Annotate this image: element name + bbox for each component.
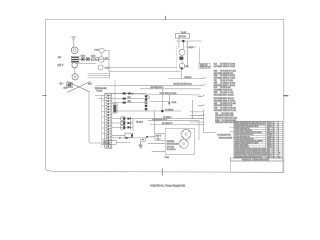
svg-text:BLK-YEL PRI WDG 1-2-3: BLK-YEL PRI WDG 1-2-3 — [174, 84, 192, 86]
svg-text:CP70: CP70 — [267, 122, 271, 124]
tick bottom center — [161, 169, 163, 176]
fuse holder F3 — [99, 48, 104, 53]
svg-text:TO FIL OF V-401: TO FIL OF V-401 — [220, 80, 233, 82]
svg-text:1: 1 — [278, 144, 279, 146]
svg-text:PLATE AND FIL: PLATE AND FIL — [217, 133, 231, 136]
tube socket V3 — [179, 139, 188, 148]
svg-text:TO PLUG P-401: TO PLUG P-401 — [220, 105, 232, 107]
svg-text:TO TERM 6 TB-401: TO TERM 6 TB-401 — [220, 82, 235, 84]
svg-text:RW25: RW25 — [267, 134, 271, 136]
wire harness L4 — [115, 110, 181, 112]
svg-text:TO TERM 2 TB-401: TO TERM 2 TB-401 — [220, 66, 235, 68]
rectifier CR1 — [112, 117, 204, 120]
capacitor C1 — [67, 82, 72, 87]
tick left center — [43, 95, 47, 97]
switch S1 bezel — [72, 62, 77, 67]
svg-text:X1: X1 — [273, 132, 275, 134]
wire — [109, 72, 111, 78]
wire — [146, 136, 155, 138]
svg-text:TO PLATE OF V-401: TO PLATE OF V-401 — [220, 69, 236, 72]
wire — [148, 143, 165, 145]
svg-text:TO RECT CR-402: TO RECT CR-402 — [220, 98, 234, 100]
switch S-402 — [98, 65, 109, 70]
wire — [98, 98, 105, 100]
svg-text:R-402 RES 100K 1W: R-402 RES 100K 1W — [235, 136, 251, 138]
module pin stubs — [190, 100, 216, 132]
label fil wind — [160, 93, 177, 95]
svg-text:TO TERM 1 TB-401: TO TERM 1 TB-401 — [220, 64, 235, 66]
svg-text:X1: X1 — [273, 142, 275, 144]
terminal screws TB1 — [107, 95, 109, 147]
tick right center — [284, 95, 288, 97]
label F-401 — [81, 55, 85, 57]
svg-text:2.5 V: 2.5 V — [144, 101, 146, 105]
svg-text:NE51: NE51 — [267, 132, 271, 134]
terminal lug E1 — [146, 96, 149, 99]
svg-text:2: 2 — [278, 126, 279, 128]
svg-text:RED: RED — [214, 70, 218, 72]
svg-text:F-402: F-402 — [95, 49, 99, 51]
svg-text:BLU: BLU — [214, 87, 218, 89]
terminal board TB1 — [105, 93, 112, 148]
terminal strip hatching — [105, 95, 111, 148]
wire bus AC2 — [109, 71, 180, 73]
input label box — [155, 134, 165, 141]
svg-text:TP40: TP40 — [267, 140, 271, 142]
svg-text:X1: X1 — [273, 128, 275, 130]
wire stub hook 5 — [198, 114, 204, 115]
svg-text:6.3V: 6.3V — [88, 84, 92, 86]
label to term — [165, 109, 174, 111]
title block box — [231, 161, 283, 172]
svg-text:1: 1 — [278, 140, 279, 142]
wire — [161, 89, 163, 111]
svg-text:FIL WIND 5 V: FIL WIND 5 V — [162, 123, 173, 125]
svg-text:3-62-178-4-1 : Power Supply Un: 3-62-178-4-1 : Power Supply Unit — [150, 184, 185, 187]
svg-text:2: 2 — [278, 128, 279, 130]
svg-text:1: 1 — [278, 132, 279, 134]
svg-text:TO FUSE F-402: TO FUSE F-402 — [220, 90, 232, 92]
wire list — [214, 64, 237, 125]
svg-text:X1: X1 — [273, 122, 275, 124]
wire bus AC1 — [109, 67, 177, 69]
wire bus B4 — [105, 93, 201, 95]
wire — [199, 48, 201, 64]
wire trio left b — [88, 75, 110, 77]
svg-text:TB-401: TB-401 — [96, 91, 102, 93]
connector J-401 column — [145, 95, 148, 110]
wire — [182, 42, 184, 48]
rectifier CR2 — [112, 121, 133, 124]
svg-text:TO TERM 5 TB-401: TO TERM 5 TB-401 — [220, 78, 235, 80]
svg-text:TERM BOARD: TERM BOARD — [95, 87, 108, 90]
diode CR4 — [112, 137, 141, 139]
svg-text:X1: X1 — [273, 134, 275, 136]
caption — [150, 184, 185, 187]
svg-text:CR-401-8: CR-401-8 — [136, 121, 143, 123]
svg-text:5U4G: 5U4G — [267, 144, 272, 146]
svg-text:X1: X1 — [273, 144, 275, 146]
crossover wires — [68, 82, 91, 93]
svg-text:X1: X1 — [273, 124, 275, 126]
junction — [182, 40, 184, 42]
svg-text:1: 1 — [278, 124, 279, 126]
svg-text:1: 1 — [278, 130, 279, 132]
svg-text:TO FIL: TO FIL — [172, 102, 177, 104]
junction dots — [123, 93, 133, 95]
svg-text:X1: X1 — [273, 155, 275, 157]
svg-text:TB12: TB12 — [267, 142, 271, 144]
terminal numbers column — [102, 95, 105, 147]
svg-text:RC10: RC10 — [267, 136, 271, 138]
antenna symbol A1 — [72, 37, 76, 44]
svg-text:TO TERM 11 TB-401: TO TERM 11 TB-401 — [220, 108, 236, 110]
socket V1 lower — [179, 63, 185, 69]
label wire colors — [128, 97, 132, 103]
wire — [168, 95, 170, 102]
pilot lamp P1 — [71, 47, 78, 54]
svg-text:S-402: S-402 — [105, 68, 110, 70]
svg-text:TO TERM 8: TO TERM 8 — [165, 109, 174, 111]
wire stub hook 4 — [198, 105, 204, 106]
wire bus B2 — [96, 84, 201, 87]
wire — [181, 60, 183, 63]
svg-text:TO TERM 12 TB-401: TO TERM 12 TB-401 — [220, 110, 236, 112]
label fil trans — [104, 142, 110, 144]
svg-text:ORN: ORN — [214, 108, 219, 110]
wire fil lead — [151, 124, 204, 126]
note box — [199, 63, 210, 68]
junction box — [112, 104, 118, 113]
svg-text:BLK: BLK — [128, 97, 132, 99]
transformer T1 windings — [71, 56, 79, 62]
svg-text:SEC WIND 350 V: SEC WIND 350 V — [151, 87, 165, 89]
svg-text:1: 1 — [278, 134, 279, 136]
rectifier CR3 — [112, 126, 133, 129]
wire stub hook 3 — [198, 95, 204, 96]
receptacle P2 — [72, 74, 78, 80]
label CR-8 — [139, 145, 143, 147]
wire bus B1 — [168, 78, 201, 80]
label pri wdg — [174, 84, 192, 86]
label V-401 — [184, 66, 188, 68]
svg-text:X1: X1 — [273, 147, 275, 149]
label fil lead — [162, 123, 173, 125]
svg-text:FIL 6.3V 1A: FIL 6.3V 1A — [167, 148, 177, 151]
svg-text:1: 1 — [278, 147, 279, 149]
wire — [186, 41, 188, 66]
label 6.3V — [88, 84, 92, 86]
svg-text:TO TERM 7 TB-401: TO TERM 7 TB-401 — [220, 85, 235, 87]
svg-text:1: 1 — [278, 138, 279, 140]
svg-text:CP70: CP70 — [267, 124, 271, 126]
svg-text:PRI WIND: PRI WIND — [167, 141, 176, 143]
svg-text:GRY: GRY — [214, 103, 218, 105]
wire — [73, 43, 75, 47]
wire — [132, 119, 134, 131]
label BLK — [64, 88, 68, 90]
wire trio left c — [88, 77, 110, 79]
wire harness L2 — [112, 98, 145, 100]
svg-text:FIL 5V 3A: FIL 5V 3A — [167, 145, 175, 148]
jack J2 — [141, 137, 146, 142]
ballast R1 — [103, 141, 116, 145]
wire — [79, 58, 109, 60]
wire — [89, 93, 103, 143]
svg-text:X1: X1 — [273, 130, 275, 132]
label plate lead — [152, 118, 168, 121]
wire — [152, 151, 165, 153]
fuse holder F4 — [99, 57, 105, 63]
label 117V — [58, 65, 64, 67]
svg-text:WHT: WHT — [214, 92, 218, 94]
label to fil — [172, 102, 177, 104]
svg-text:117 V: 117 V — [58, 65, 64, 67]
power transformer T2 case — [165, 128, 194, 154]
wire — [180, 69, 182, 79]
tube socket V2 — [181, 129, 191, 139]
svg-text:RED-BLK: RED-BLK — [185, 77, 193, 79]
lamp V1 — [179, 49, 185, 55]
svg-text:V-401: V-401 — [184, 66, 188, 68]
wire — [104, 51, 109, 72]
svg-text:S-401 SW TOGGLE DPST: S-401 SW TOGGLE DPST — [235, 138, 254, 140]
table entry stubs — [230, 127, 235, 137]
junction — [161, 110, 163, 112]
svg-text:1: 1 — [278, 142, 279, 144]
svg-text:CR-8: CR-8 — [139, 145, 143, 147]
label term board — [95, 87, 108, 93]
border frame — [46, 19, 284, 172]
svg-text:S-401: S-401 — [91, 55, 96, 57]
svg-text:YEL: YEL — [214, 80, 217, 82]
svg-text:R-401 RES 25K 10W WW: R-401 RES 25K 10W WW — [235, 134, 254, 136]
svg-text:VR15: VR15 — [267, 147, 271, 149]
wire — [185, 46, 196, 48]
svg-text:V-402 TUBE VR150: V-402 TUBE VR150 — [235, 147, 249, 149]
label PL-401 — [181, 32, 186, 34]
label SW — [105, 58, 108, 60]
svg-text:60 ~: 60 ~ — [60, 83, 65, 85]
svg-text:ST21: ST21 — [267, 138, 271, 140]
label red-blk — [185, 77, 193, 79]
label T-401 — [164, 157, 169, 159]
svg-text:X1: X1 — [273, 140, 275, 142]
svg-text:PLATE LEAD 450 V: PLATE LEAD 450 V — [152, 118, 168, 121]
fuse F1 — [81, 57, 84, 60]
svg-text:VIO: VIO — [215, 113, 219, 115]
svg-text:TO JACK J-401: TO JACK J-401 — [222, 112, 234, 115]
arrow down — [168, 102, 170, 105]
wire — [178, 38, 180, 48]
svg-text:SO8: SO8 — [267, 151, 270, 153]
switch S2 — [92, 58, 95, 61]
svg-text:X1: X1 — [273, 136, 275, 138]
svg-text:115 V AC: 115 V AC — [179, 35, 187, 38]
wire stub hook 2 — [201, 84, 206, 85]
wire — [104, 58, 109, 60]
label S-401 — [91, 55, 96, 57]
label CR-401-8 — [136, 121, 143, 123]
svg-text:1: 1 — [278, 136, 279, 138]
svg-text:TO RECT CR-401: TO RECT CR-401 — [220, 94, 234, 96]
label R-401 — [189, 47, 193, 49]
svg-text:TO GND LUG E-401: TO GND LUG E-401 — [222, 118, 238, 120]
wire harness L3 — [112, 102, 145, 104]
winding labels T2 — [167, 141, 179, 151]
svg-text:RED: RED — [128, 101, 132, 103]
label plate and fil trans — [217, 133, 232, 139]
wire bus B3 — [140, 88, 201, 90]
wire — [76, 63, 96, 65]
parts list table — [234, 121, 282, 158]
relay K1 — [112, 133, 133, 137]
svg-text:NOTE- ALL: NOTE- ALL — [200, 63, 208, 66]
svg-text:J5W: J5W — [267, 130, 271, 132]
rectifier CR-A — [179, 57, 183, 60]
svg-text:SW: SW — [58, 57, 61, 59]
svg-text:W18: W18 — [267, 153, 270, 155]
wire — [198, 121, 200, 140]
parts list rows — [235, 121, 281, 159]
wire — [176, 40, 202, 42]
wire — [114, 80, 116, 104]
svg-text:1: 1 — [278, 122, 279, 124]
table title strip — [231, 158, 283, 162]
label F3 — [95, 49, 99, 51]
svg-text:115 V: 115 V — [156, 136, 162, 138]
fuse F2 — [86, 57, 89, 60]
svg-text:TO TERM 10 TB-401: TO TERM 10 TB-401 — [220, 103, 236, 105]
svg-text:X2: X2 — [273, 151, 275, 153]
svg-text:X2: X2 — [273, 126, 275, 128]
switch S3 — [96, 58, 99, 61]
svg-text:TO TERM 4 TB-401: TO TERM 4 TB-401 — [220, 75, 235, 77]
label 2.5V vertical — [144, 101, 146, 105]
label S1 — [58, 57, 61, 59]
wire — [150, 136, 155, 138]
svg-text:2: 2 — [278, 151, 279, 153]
wire — [95, 95, 105, 97]
svg-text:T-401: T-401 — [164, 157, 169, 159]
label to term 4 — [163, 117, 172, 119]
svg-text:SEC 350-0-350: SEC 350-0-350 — [167, 144, 179, 146]
svg-text:WIRES NO 18: WIRES NO 18 — [200, 66, 210, 68]
wire — [74, 68, 76, 74]
svg-text:BRN: BRN — [214, 82, 218, 84]
svg-text:CH10: CH10 — [267, 155, 271, 157]
wire — [150, 100, 170, 102]
svg-text:2: 2 — [278, 149, 279, 151]
label 60~ — [60, 83, 65, 85]
svg-text:V-401 TUBE 5U4G: V-401 TUBE 5U4G — [235, 144, 249, 146]
wire — [116, 142, 130, 144]
tick top center — [165, 16, 167, 19]
svg-text:BLK: BLK — [214, 64, 218, 66]
chassis boundary dashed — [175, 46, 177, 72]
wire trio left a — [88, 72, 110, 74]
svg-text:GRN: GRN — [214, 75, 219, 77]
svg-text:X1: X1 — [273, 138, 275, 140]
wire plate lead — [148, 120, 199, 122]
svg-text:F-401: F-401 — [81, 55, 85, 57]
ground — [139, 142, 142, 148]
wire harness L1 — [112, 92, 146, 94]
wire — [181, 55, 183, 56]
svg-text:R-401: R-401 — [189, 47, 193, 49]
wire stub hook 1 — [201, 78, 206, 79]
wire — [154, 111, 156, 134]
plug PL1 — [176, 34, 190, 39]
svg-text:X2: X2 — [273, 149, 275, 151]
connector lugs P-401 — [123, 92, 131, 103]
svg-text:SO8: SO8 — [267, 149, 270, 151]
wire — [101, 53, 103, 57]
svg-text:TO SW S-401: TO SW S-401 — [220, 87, 231, 89]
svg-text:1: 1 — [278, 155, 279, 157]
label sec wdg — [151, 87, 165, 89]
svg-text:CR65: CR65 — [267, 126, 271, 128]
svg-text:TO TERM 9 TB-401: TO TERM 9 TB-401 — [220, 100, 235, 102]
